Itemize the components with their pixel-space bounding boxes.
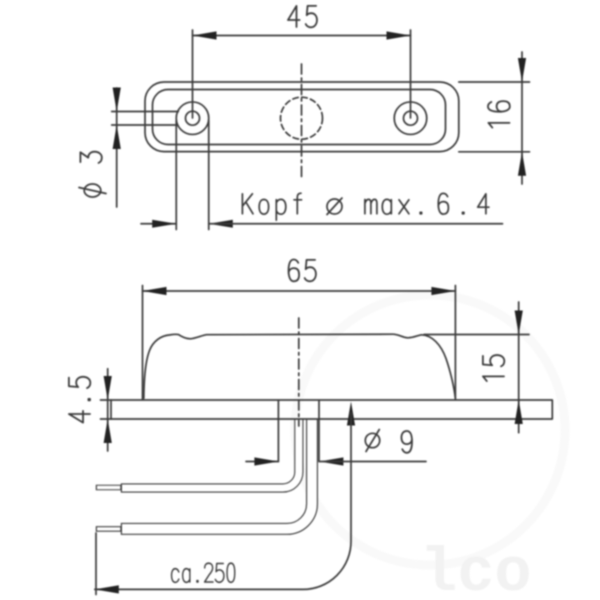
side view centerline (298, 318, 300, 426)
dimension d3 arrow bottom (113, 125, 121, 149)
dimension 4.5 extension line top (101, 399, 112, 401)
dimension 15 label (483, 355, 504, 381)
head diameter text Kopf (242, 193, 301, 220)
dimension d9 label (401, 431, 412, 453)
wire 2 stripped end outline (96, 526, 122, 532)
dimension 65 label (289, 259, 316, 281)
dimension 16 arrow top (518, 58, 526, 82)
right mounting hole bore (404, 111, 418, 125)
dimension 4.5 label (69, 377, 90, 423)
side view base plate (111, 400, 552, 419)
dimension 65 line (143, 290, 456, 292)
dimension 45 line (193, 35, 411, 37)
dimension d3 diameter symbol (84, 184, 101, 197)
left mounting hole bore (186, 111, 200, 125)
head diameter extension line left (175, 120, 177, 230)
head diameter text 6.4 (438, 193, 489, 214)
wire length leader arrow up (347, 402, 355, 426)
dimension d9 diameter symbol (365, 433, 379, 447)
dimension 15 line (518, 302, 520, 433)
dimension 4.5 line (107, 369, 109, 451)
wire 2 core (122, 419, 312, 529)
right mounting hole counterbore (394, 102, 427, 135)
svg-text:lco: lco (420, 538, 532, 600)
dimension 16 extension line bottom (459, 151, 530, 153)
dimension d9 arrow right (319, 457, 343, 465)
dimension d3 arrow top (113, 88, 121, 112)
dimension 4.5 arrow bottom (104, 419, 112, 443)
dimension 16 extension line top (459, 81, 530, 83)
dimension 15 arrow top (515, 311, 523, 335)
head diameter leader line left (141, 223, 176, 225)
head diameter text max (365, 199, 422, 214)
head diameter leader line right (209, 223, 503, 225)
dimension 45 label (288, 6, 317, 27)
dimension 16 line (521, 52, 523, 184)
lamp housing outer outline (top view) (145, 82, 459, 152)
dimension d3 extension line top (112, 111, 179, 113)
head diameter arrow left (152, 220, 176, 228)
bulb position dashed circle (281, 97, 323, 139)
dimension 16 arrow bottom (518, 152, 526, 176)
dimension 65 arrow right (431, 287, 455, 295)
head diameter extension line right (208, 120, 210, 230)
dimension 65 arrow left (143, 287, 167, 295)
wire length label ca.250 (172, 563, 235, 582)
wire 1 outline (121, 420, 299, 488)
dimension d3 line (116, 88, 118, 207)
dimension d9 line left (246, 461, 278, 463)
dimension 45 arrow left (193, 31, 217, 39)
dimension 4.5 extension line bottom (101, 418, 112, 420)
dimension d9 line right (319, 461, 426, 463)
wire 1 stripped end outline (96, 485, 122, 491)
dimension 45 extension line right (410, 30, 412, 118)
watermark faint circle (295, 295, 565, 565)
wire length arrow left (95, 585, 119, 593)
wire 2 stripped end core (97, 527, 120, 530)
dimension d3 label (80, 152, 101, 163)
head diameter symbol (327, 199, 342, 214)
wire 1 stripped end core (97, 486, 120, 489)
wire 2 outline (121, 420, 312, 529)
left mounting hole counterbore (176, 102, 209, 135)
side view dome profile (144, 334, 456, 398)
lamp lens inner outline (top view) (153, 90, 446, 145)
stem left edge (277, 401, 279, 462)
wire length leader vertical line (95, 413, 351, 589)
dimension d9 arrow left (254, 457, 278, 465)
dimension 45 arrow right (387, 31, 411, 39)
dimension 65 extension line right (454, 286, 456, 400)
dimension 4.5 arrow top (104, 376, 112, 400)
stem right edge (318, 401, 320, 462)
dimension 15 extension line top (424, 334, 529, 336)
wire length extension line (95, 533, 97, 595)
dimension d3 extension line bottom (112, 124, 178, 126)
head diameter arrow right (209, 220, 233, 228)
dimension 65 extension line left (142, 286, 144, 400)
dimension 45 extension line left (192, 30, 194, 118)
dimension 16 label (488, 101, 510, 127)
wire 1 core (122, 419, 299, 488)
dimension 15 arrow bottom (515, 400, 523, 424)
vertical centerline (top view) (301, 64, 303, 180)
